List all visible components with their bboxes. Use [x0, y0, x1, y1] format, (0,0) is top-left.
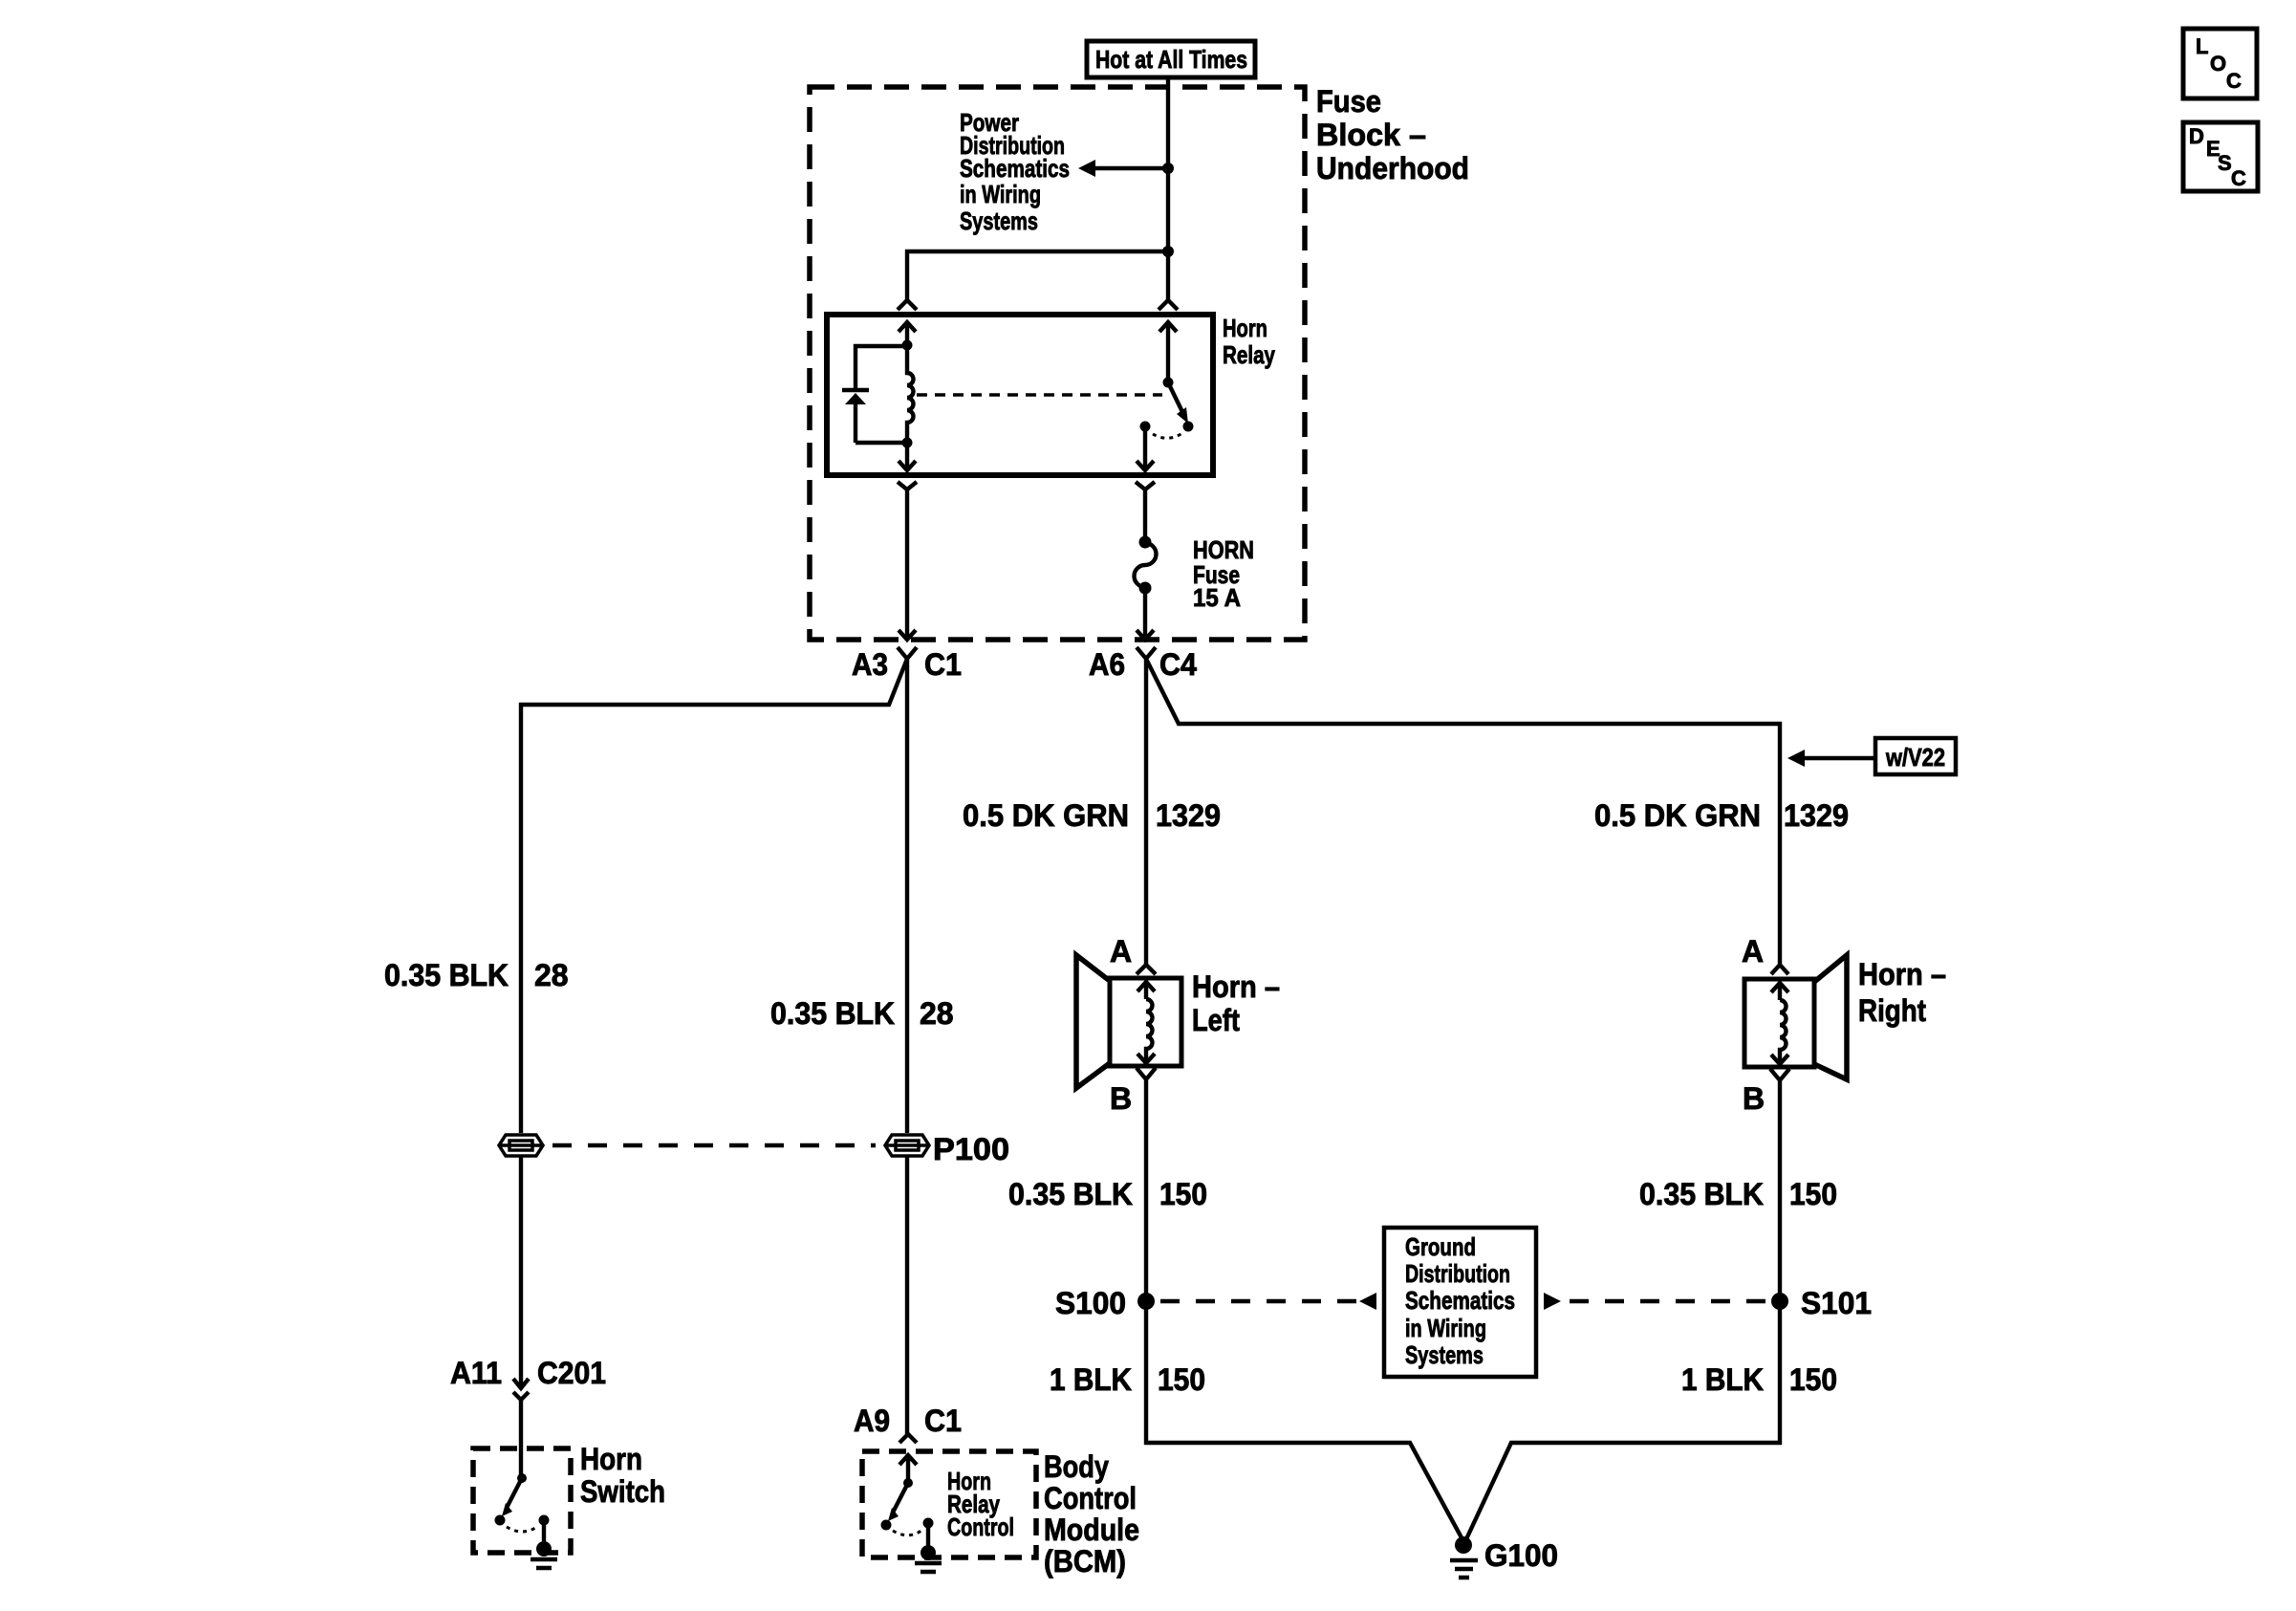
svg-text:0.35 BLK: 0.35 BLK: [1008, 1177, 1133, 1211]
svg-text:1329: 1329: [1784, 798, 1849, 833]
svg-text:Switch: Switch: [580, 1474, 665, 1509]
svg-text:Horn –: Horn –: [1858, 957, 1946, 991]
svg-text:Schematics: Schematics: [960, 154, 1070, 183]
svg-text:28: 28: [920, 996, 954, 1031]
svg-text:C: C: [2231, 166, 2246, 190]
svg-text:A9: A9: [854, 1404, 890, 1438]
svg-text:C201: C201: [537, 1356, 606, 1390]
svg-text:150: 150: [1789, 1177, 1837, 1211]
svg-text:in Wiring: in Wiring: [960, 180, 1041, 208]
svg-text:D: D: [2189, 124, 2204, 148]
svg-text:Horn: Horn: [1223, 314, 1267, 342]
svg-text:Left: Left: [1192, 1003, 1240, 1037]
svg-text:C: C: [2226, 69, 2242, 93]
svg-text:Module: Module: [1044, 1513, 1139, 1547]
svg-text:L: L: [2196, 34, 2208, 58]
svg-text:0.5 DK GRN: 0.5 DK GRN: [963, 798, 1129, 833]
svg-text:Systems: Systems: [960, 207, 1038, 235]
svg-text:in Wiring: in Wiring: [1405, 1314, 1486, 1342]
svg-text:G100: G100: [1484, 1538, 1558, 1573]
svg-text:C1: C1: [924, 1404, 962, 1438]
svg-text:0.5 DK GRN: 0.5 DK GRN: [1594, 798, 1761, 833]
svg-text:Fuse: Fuse: [1316, 84, 1381, 119]
svg-text:Distribution: Distribution: [1405, 1259, 1510, 1288]
svg-text:A11: A11: [450, 1356, 502, 1390]
svg-text:w/V22: w/V22: [1885, 743, 1945, 772]
svg-text:Body: Body: [1044, 1449, 1109, 1484]
svg-text:Control: Control: [1044, 1481, 1137, 1515]
svg-text:28: 28: [534, 958, 569, 992]
svg-text:Underhood: Underhood: [1316, 151, 1469, 185]
svg-text:Relay: Relay: [1223, 340, 1275, 369]
svg-text:A3: A3: [852, 647, 888, 682]
svg-text:Right: Right: [1858, 993, 1926, 1028]
svg-text:C1: C1: [924, 647, 962, 682]
svg-text:0.35 BLK: 0.35 BLK: [384, 958, 509, 992]
svg-text:Schematics: Schematics: [1405, 1286, 1515, 1315]
svg-text:C4: C4: [1159, 647, 1197, 682]
svg-text:P100: P100: [933, 1132, 1009, 1166]
svg-text:Systems: Systems: [1405, 1340, 1484, 1369]
svg-text:S101: S101: [1801, 1286, 1872, 1320]
svg-text:(BCM): (BCM): [1044, 1544, 1126, 1578]
svg-text:S100: S100: [1055, 1286, 1126, 1320]
svg-text:S: S: [2218, 151, 2232, 175]
svg-text:Horn –: Horn –: [1192, 969, 1280, 1004]
svg-text:150: 150: [1789, 1362, 1837, 1397]
svg-text:O: O: [2210, 52, 2226, 76]
svg-text:1329: 1329: [1156, 798, 1221, 833]
svg-text:Control: Control: [947, 1513, 1014, 1541]
svg-text:B: B: [1743, 1081, 1765, 1116]
svg-text:Ground: Ground: [1405, 1232, 1476, 1261]
svg-text:B: B: [1110, 1081, 1132, 1116]
svg-text:Block –: Block –: [1316, 118, 1426, 152]
svg-text:A6: A6: [1089, 647, 1125, 682]
svg-text:0.35 BLK: 0.35 BLK: [770, 996, 895, 1031]
svg-text:Horn: Horn: [580, 1442, 642, 1476]
svg-text:15 A: 15 A: [1193, 583, 1241, 612]
svg-text:1 BLK: 1 BLK: [1681, 1362, 1764, 1397]
svg-text:150: 150: [1159, 1177, 1207, 1211]
svg-text:0.35 BLK: 0.35 BLK: [1639, 1177, 1764, 1211]
svg-text:1 BLK: 1 BLK: [1050, 1362, 1132, 1397]
svg-text:150: 150: [1158, 1362, 1205, 1397]
svg-text:Hot at All Times: Hot at All Times: [1095, 45, 1247, 74]
svg-text:A: A: [1742, 934, 1764, 969]
svg-text:A: A: [1110, 934, 1132, 969]
